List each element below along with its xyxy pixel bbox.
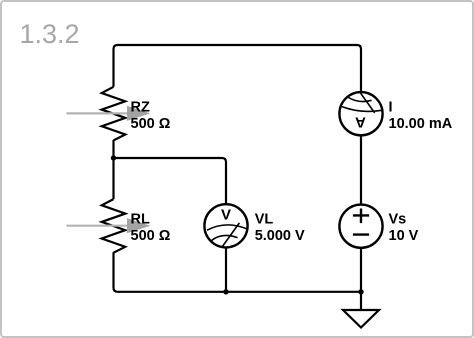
svg-text:10.00 mA: 10.00 mA [389,116,453,132]
svg-text:A: A [355,114,366,131]
svg-text:5.000 V: 5.000 V [255,228,305,244]
svg-text:Vs: Vs [389,211,407,227]
svg-text:RL: RL [131,211,150,227]
svg-text:500 Ω: 500 Ω [131,116,171,132]
svg-text:RZ: RZ [131,99,150,115]
svg-text:I: I [389,99,393,115]
svg-text:500 Ω: 500 Ω [131,228,171,244]
svg-text:10 V: 10 V [389,228,419,244]
svg-text:VL: VL [255,211,274,227]
svg-text:V: V [221,206,231,223]
